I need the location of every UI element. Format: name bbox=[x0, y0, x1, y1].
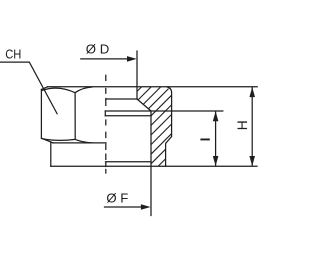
hex bottom face edge bbox=[53, 142, 106, 144]
hex top-left chamfer bbox=[41, 87, 47, 90]
skirt left edge bbox=[50, 143, 52, 166]
leader line CH bbox=[0, 62, 57, 114]
dimension arrow ØF bbox=[105, 206, 142, 208]
hex top chamfer arc middle facet bbox=[75, 87, 92, 93]
hex bottom chamfer arc left facet bbox=[42, 139, 75, 141]
svg-text:Ø D: Ø D bbox=[86, 42, 109, 57]
dimension line H bbox=[251, 87, 253, 166]
bore bottom line L5 bbox=[106, 161, 152, 163]
hex cap left corner edge bbox=[40, 90, 42, 139]
thread top line / I extension bbox=[105, 110, 223, 112]
svg-text:Ø F: Ø F bbox=[106, 191, 128, 206]
top surface line / H extension bbox=[48, 86, 258, 88]
hex bottom chamfer arc middle facet bbox=[75, 139, 92, 143]
label I bbox=[200, 139, 209, 141]
svg-text:CH: CH bbox=[5, 47, 21, 62]
bore entry chamfer bbox=[137, 99, 151, 111]
section outer right edge bbox=[166, 87, 172, 166]
hex bottom-left chamfer bbox=[41, 138, 53, 143]
svg-text:H: H bbox=[235, 120, 250, 130]
hex facet edge bbox=[74, 93, 76, 140]
thread relief line L4 bbox=[105, 115, 151, 117]
bore top edge L1 bbox=[106, 98, 137, 100]
dimension line I bbox=[215, 111, 217, 166]
dimension arrow ØD bbox=[81, 58, 128, 60]
thread bracket joint bbox=[104, 111, 106, 116]
centerline (dashed axis) bbox=[105, 75, 107, 173]
extension line ØD bbox=[136, 51, 138, 99]
hex top chamfer arc left facet bbox=[42, 88, 75, 93]
bore wall / ØF extension line bbox=[150, 111, 152, 216]
bottom baseline bbox=[51, 165, 257, 167]
section hatching bbox=[56, 84, 250, 172]
